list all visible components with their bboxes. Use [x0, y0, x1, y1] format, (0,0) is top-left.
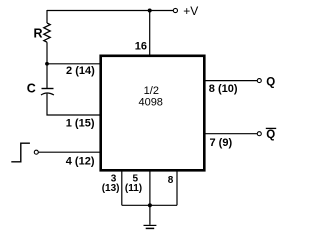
- node: ground bus junction: [148, 203, 152, 207]
- wire: resistor bottom to RC junction: [46, 42, 48, 64]
- svg-text:7 (9): 7 (9): [210, 137, 233, 149]
- wire: pin 3 down from IC bottom: [121, 170, 123, 205]
- svg-text:2 (14): 2 (14): [66, 65, 95, 77]
- node: junction of +V rail and pin 16: [148, 9, 152, 13]
- wire: pin 5 down from IC bottom: [149, 170, 151, 205]
- terminal: Q output open circle: [257, 79, 261, 83]
- terminal: trigger input open circle: [34, 150, 38, 154]
- terminal: +V open circle: [173, 8, 177, 12]
- svg-text:8: 8: [168, 175, 174, 186]
- svg-text:1 (15): 1 (15): [66, 118, 95, 130]
- wire: pin 16 from +V rail down to IC top: [149, 11, 151, 56]
- svg-text:4098: 4098: [138, 97, 162, 109]
- svg-text:4 (12): 4 (12): [66, 156, 95, 168]
- input pulse (rising edge) symbol: [11, 143, 30, 162]
- ground symbol: [144, 225, 157, 231]
- resistor R: [44, 23, 50, 42]
- svg-text:(11): (11): [125, 183, 142, 194]
- wire: capacitor bottom to pin 1: [47, 94, 101, 115]
- svg-text:(13): (13): [102, 183, 120, 194]
- wire: pin 8 output Q: [205, 80, 258, 82]
- terminal: Q-bar output open circle: [257, 132, 261, 136]
- svg-text:8 (10): 8 (10): [209, 83, 238, 95]
- label: Q-bar: [266, 128, 276, 141]
- svg-text:Q: Q: [266, 129, 275, 141]
- svg-text:R: R: [34, 27, 43, 41]
- wire: from +V rail down to resistor R: [46, 10, 48, 23]
- svg-text:+V: +V: [183, 4, 198, 18]
- wire: RC junction down to capacitor C: [46, 64, 48, 89]
- svg-text:1/2: 1/2: [144, 85, 159, 97]
- node: RC junction (pin 2 net): [45, 62, 49, 66]
- wire: +V supply rail (top horizontal): [47, 10, 173, 12]
- IC U1: 1/2 4098 body: [101, 56, 205, 171]
- wire: pin 4 trigger input into IC: [39, 151, 102, 153]
- capacitor C: [41, 89, 54, 96]
- wire: pin 8 (reset) down from IC bottom: [176, 170, 178, 205]
- wire: ground stem: [149, 205, 151, 225]
- wire: pin 2 horizontal into IC: [47, 63, 101, 65]
- svg-text:Q: Q: [266, 77, 275, 89]
- wire: ground bus connecting pins 3,5,8: [122, 204, 177, 206]
- wire: pin 7 output Q-bar: [205, 133, 258, 135]
- svg-text:16: 16: [135, 41, 147, 53]
- svg-text:C: C: [27, 82, 36, 96]
